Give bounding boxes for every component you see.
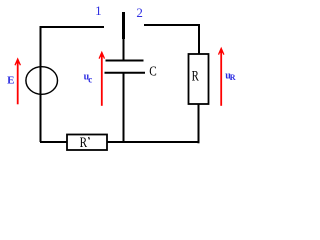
svg-text:R: R <box>192 69 199 85</box>
svg-text:1: 1 <box>95 3 102 18</box>
svg-text:E: E <box>7 75 14 87</box>
svg-text:R: R <box>80 135 88 151</box>
svg-text:2: 2 <box>136 5 143 20</box>
svg-text:c: c <box>88 74 92 84</box>
svg-text:C: C <box>149 65 157 80</box>
svg-text:R: R <box>230 73 236 82</box>
